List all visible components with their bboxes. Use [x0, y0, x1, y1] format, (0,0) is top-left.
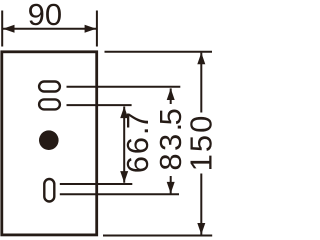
slot S3 (vertical bottom slot): [44, 179, 54, 202]
svg-text:66.7: 66.7: [120, 110, 155, 173]
svg-text:90: 90: [28, 0, 62, 32]
dimension 150 arrow down: [197, 223, 205, 235]
leader from slot S2 to 66.7 dimension: [67, 104, 132, 106]
dimension 66.7 arrow down: [120, 171, 128, 183]
dimension 83.5 line lower segment: [170, 176, 172, 194]
dimension 150 line upper segment: [200, 53, 202, 113]
dimension 90 line: [2, 28, 97, 30]
dimension 66.7 line: [123, 107, 125, 183]
svg-text:150: 150: [184, 114, 219, 172]
leader from slot S3 bottom arc center to 83.5 dimension: [60, 193, 179, 195]
fixture outline rectangle: [2, 52, 97, 235]
leader from slot S1 to 83.5 dimension: [67, 86, 181, 88]
dimension 90 extension line right: [96, 11, 98, 47]
dimension 150 arrow up: [197, 53, 205, 65]
slot S2 (second mounting slot): [39, 99, 60, 109]
dimension 150 line lower segment: [200, 174, 202, 235]
leader from slot S3 top arc center to 66.7 dimension: [60, 183, 133, 185]
knockout hole (filled circle): [39, 130, 59, 150]
dimension 90 arrow left: [3, 25, 15, 33]
dimension 83.5 arrow down: [167, 182, 175, 194]
dimension 66.7 arrow up: [120, 107, 128, 119]
leader extending rectangle top edge to 150 dimension: [105, 51, 213, 53]
dimension 90 extension line left: [1, 11, 3, 47]
dimension 83.5 line upper segment: [170, 88, 172, 104]
dimension 90 arrow right: [85, 25, 97, 33]
slot S1 (upper mounting slot): [39, 82, 60, 92]
leader extending rectangle bottom edge to 150 dimension: [103, 235, 212, 237]
dimension 83.5 arrow up: [167, 88, 175, 100]
